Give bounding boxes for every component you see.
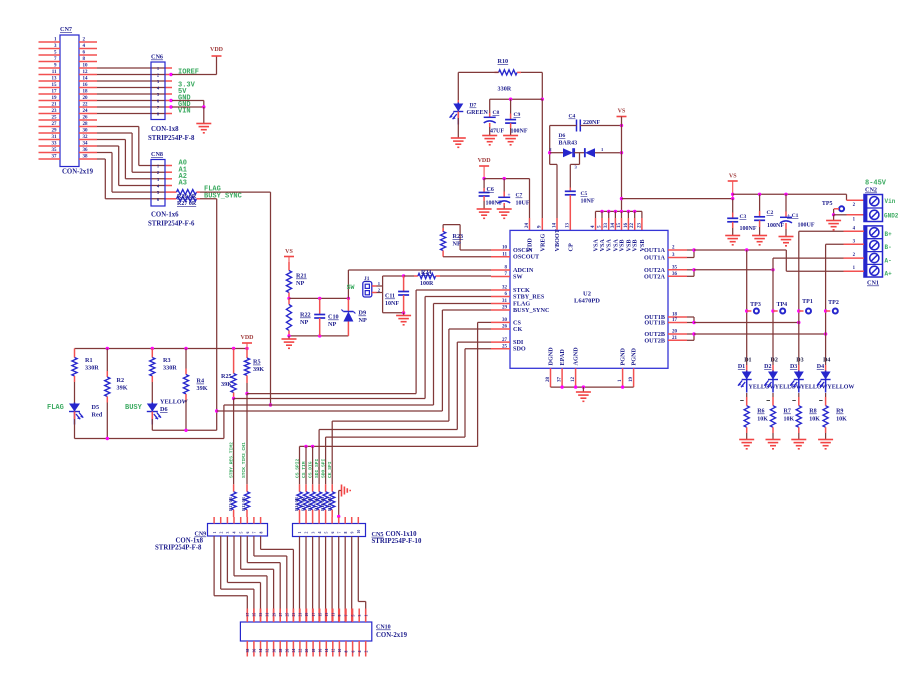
svg-text:R25: R25 [221,373,232,380]
svg-text:12: 12 [83,70,89,75]
svg-text:R5: R5 [253,359,261,366]
svg-text:R13 0R: R13 0R [228,496,233,511]
svg-text:SW: SW [513,274,523,281]
svg-text:CN5: CN5 [372,531,384,538]
svg-text:10UF: 10UF [516,201,530,207]
svg-text:CN10: CN10 [376,625,391,631]
svg-text:NP: NP [453,241,461,248]
svg-text:8: 8 [345,651,349,653]
svg-text:D2: D2 [764,364,771,370]
svg-text:13: 13 [325,613,329,617]
svg-text:D3: D3 [790,364,797,370]
svg-text:C4: C4 [569,114,576,120]
svg-text:10: 10 [83,64,89,69]
svg-text:1: 1 [298,532,302,534]
svg-text:7: 7 [253,532,257,534]
svg-text:330R: 330R [163,365,177,372]
svg-text:CS_DIG: CS_DIG [307,461,313,478]
svg-text:TP3: TP3 [750,302,761,308]
svg-text:U2: U2 [583,291,591,298]
svg-text:L6470PD: L6470PD [574,298,600,305]
svg-text:OUT1B: OUT1B [644,320,665,327]
svg-text:100UF: 100UF [798,223,815,229]
svg-text:D1: D1 [744,358,751,364]
svg-text:23: 23 [637,223,642,229]
svg-text:VS: VS [285,249,293,255]
svg-text:30: 30 [272,649,276,653]
svg-text:3: 3 [311,532,315,534]
svg-text:12: 12 [332,649,336,653]
svg-text:37: 37 [246,613,250,617]
svg-text:25: 25 [52,116,58,121]
svg-text:TP5: TP5 [822,201,833,207]
svg-text:7: 7 [337,532,341,534]
svg-text:R19 0R: R19 0R [327,496,332,511]
svg-text:34: 34 [611,223,616,229]
svg-text:J1: J1 [364,276,370,282]
svg-text:19: 19 [629,377,634,383]
svg-text:STRIP254P-F-6: STRIP254P-F-6 [148,221,195,228]
svg-text:R6: R6 [757,409,764,415]
svg-text:30: 30 [83,129,89,134]
svg-text:C3: C3 [740,214,747,220]
svg-text:34: 34 [83,142,89,147]
svg-text:PGND: PGND [620,347,627,365]
svg-text:CK_SPI: CK_SPI [327,461,333,478]
svg-text:NP: NP [328,321,336,328]
svg-text:3: 3 [358,615,362,617]
svg-text:2: 2 [219,532,223,534]
svg-text:36: 36 [672,272,678,277]
svg-text:R21: R21 [296,273,307,280]
svg-text:R4: R4 [197,378,205,385]
svg-text:1: 1 [213,532,217,534]
svg-text:2: 2 [305,532,309,534]
svg-text:29: 29 [272,613,276,617]
svg-text:C11: C11 [385,294,395,300]
svg-text:16: 16 [624,223,629,229]
svg-text:33: 33 [604,223,609,229]
svg-text:23: 23 [292,613,296,617]
svg-text:TP1: TP1 [802,299,813,305]
svg-text:D6: D6 [559,133,566,139]
svg-text:C7: C7 [516,193,523,199]
svg-text:5: 5 [324,532,328,534]
svg-text:D4: D4 [823,358,830,364]
svg-text:15: 15 [52,83,58,88]
svg-text:9: 9 [350,532,354,534]
svg-text:+ C1: + C1 [787,213,799,219]
svg-text:1: 1 [364,615,368,617]
svg-text:SDO: SDO [513,346,526,353]
svg-text:VDD: VDD [478,158,492,164]
svg-text:19: 19 [52,96,58,101]
svg-text:CS_SPI2: CS_SPI2 [294,458,300,478]
svg-text:21: 21 [52,103,58,108]
svg-text:20: 20 [672,330,678,335]
svg-text:+: + [508,193,511,199]
svg-text:28: 28 [546,377,551,383]
svg-text:YELLOW: YELLOW [160,399,189,406]
svg-text:18: 18 [83,90,89,95]
svg-text:B-: B- [885,244,892,251]
svg-text:CN1: CN1 [867,280,879,287]
svg-text:330R: 330R [85,365,99,372]
svg-text:3: 3 [226,532,230,534]
svg-text:11: 11 [52,70,57,75]
svg-text:SDI_SPI: SDI_SPI [314,458,320,478]
svg-text:28: 28 [279,649,283,653]
svg-text:22: 22 [83,103,89,108]
svg-text:C10: C10 [328,314,339,321]
svg-text:R12 0R: R12 0R [241,496,246,511]
svg-text:TP2: TP2 [828,300,839,306]
svg-text:32: 32 [502,286,508,291]
svg-text:38: 38 [246,649,250,653]
svg-text:D4: D4 [817,364,824,370]
svg-text:CON-2x19: CON-2x19 [62,169,94,176]
svg-text:5: 5 [351,615,355,617]
svg-text:47UF: 47UF [490,129,504,135]
svg-text:31: 31 [502,299,508,304]
svg-text:C5: C5 [581,191,588,197]
svg-text:YELLOW: YELLOW [775,385,802,391]
svg-text:6: 6 [351,651,355,653]
svg-text:10K: 10K [836,417,847,423]
svg-text:C8: C8 [493,110,500,116]
svg-text:NP: NP [359,317,367,324]
svg-text:12: 12 [571,377,576,383]
svg-text:35: 35 [253,613,257,617]
svg-text:CON-2x19: CON-2x19 [376,632,408,639]
svg-text:16: 16 [318,649,322,653]
svg-text:15: 15 [617,223,622,229]
svg-text:STRIP254P-F-10: STRIP254P-F-10 [372,538,422,545]
svg-text:33: 33 [259,613,263,617]
svg-text:21: 21 [672,336,678,341]
svg-text:8: 8 [344,532,348,534]
svg-text:A+: A+ [885,271,893,278]
svg-text:10: 10 [502,246,508,251]
svg-text:35: 35 [52,148,58,153]
svg-text:36: 36 [83,148,89,153]
svg-text:37: 37 [52,155,58,160]
svg-text:13: 13 [566,223,571,229]
svg-text:C6: C6 [487,187,494,193]
svg-text:6: 6 [246,532,250,534]
svg-text:R8: R8 [809,409,816,415]
svg-text:YELLOW: YELLOW [801,385,828,391]
svg-text:10: 10 [338,649,342,653]
svg-text:VDD: VDD [210,47,224,53]
svg-text:BUSY: BUSY [125,404,143,412]
svg-text:D3: D3 [796,358,803,364]
svg-text:7: 7 [345,615,349,617]
svg-text:A3: A3 [179,180,187,188]
svg-text:D1: D1 [738,364,745,370]
svg-text:100NF: 100NF [511,129,528,135]
svg-text:R9: R9 [836,409,843,415]
svg-text:26: 26 [502,325,508,330]
svg-text:18: 18 [672,313,678,318]
svg-text:OUT1A: OUT1A [644,255,666,262]
svg-text:BUSY_SYNC: BUSY_SYNC [513,307,549,314]
svg-text:R1: R1 [85,357,93,364]
svg-text:Vin: Vin [885,198,896,205]
svg-text:39K: 39K [117,385,128,392]
svg-text:R18 0R: R18 0R [320,496,325,511]
svg-text:6: 6 [331,532,335,534]
svg-text:VSB: VSB [639,239,646,251]
svg-text:FLAG: FLAG [47,404,64,412]
svg-text:29: 29 [52,129,58,134]
svg-text:SDO_SPI: SDO_SPI [320,458,326,478]
svg-text:YELLOW: YELLOW [827,385,854,391]
svg-text:38: 38 [83,155,89,160]
svg-text:32: 32 [266,649,270,653]
svg-text:YELLOW: YELLOW [749,385,776,391]
svg-text:30: 30 [502,318,508,323]
svg-text:31: 31 [52,135,58,140]
svg-text:20: 20 [83,96,89,101]
svg-text:VIN: VIN [178,108,191,116]
svg-text:CK: CK [513,326,522,333]
svg-text:100NF: 100NF [740,226,757,232]
svg-text:25: 25 [502,344,508,349]
svg-text:24: 24 [83,109,89,114]
svg-text:25: 25 [286,613,290,617]
svg-text:R16 0R: R16 0R [307,496,312,511]
svg-text:19: 19 [305,613,309,617]
svg-text:NP: NP [300,319,308,326]
svg-text:CN7: CN7 [60,26,72,33]
svg-text:VS: VS [729,174,737,180]
svg-text:39K: 39K [253,366,264,373]
svg-text:22: 22 [299,649,303,653]
svg-text:15: 15 [318,613,322,617]
svg-text:18: 18 [312,649,316,653]
svg-text:4: 4 [318,532,322,534]
svg-text:29: 29 [502,306,508,311]
svg-text:20: 20 [305,649,309,653]
svg-text:27: 27 [52,122,58,127]
svg-text:BAR43: BAR43 [559,141,578,147]
svg-text:CON-1x10: CON-1x10 [386,531,418,538]
svg-text:VS: VS [618,109,626,115]
svg-text:24: 24 [292,649,296,653]
svg-text:17: 17 [312,613,316,617]
svg-text:23: 23 [52,109,58,114]
svg-text:VBOOT: VBOOT [554,228,561,251]
svg-text:39K: 39K [197,385,208,392]
svg-text:OUT1A: OUT1A [644,247,666,254]
svg-text:CON-1x8: CON-1x8 [151,126,179,133]
svg-text:28: 28 [83,122,89,127]
svg-text:100R: 100R [420,281,434,287]
svg-text:11: 11 [332,613,336,617]
svg-text:VSB: VSB [632,239,639,251]
svg-text:26: 26 [286,649,290,653]
svg-text:8: 8 [259,532,263,534]
svg-text:Red: Red [92,412,103,419]
svg-text:D5: D5 [92,404,100,411]
svg-text:STCK_TIM3_CH1: STCK_TIM3_CH1 [241,442,247,478]
svg-text:24: 24 [525,223,530,229]
svg-text:SW: SW [347,284,355,291]
svg-text:17: 17 [672,318,678,323]
svg-text:A-: A- [885,258,892,265]
svg-text:D2: D2 [771,358,778,364]
svg-text:R10: R10 [498,58,509,65]
svg-text:CN8: CN8 [151,151,163,158]
svg-text:4: 4 [358,651,362,653]
svg-text:14: 14 [83,77,89,82]
svg-text:35: 35 [672,266,678,271]
svg-text:11: 11 [502,252,507,257]
svg-text:C2: C2 [767,210,774,216]
svg-text:27: 27 [279,613,283,617]
svg-text:OUT2A: OUT2A [644,273,666,280]
svg-text:2: 2 [364,651,368,653]
svg-text:STBY_RES: STBY_RES [513,294,545,301]
svg-text:R7: R7 [784,409,791,415]
svg-text:EPAD: EPAD [559,349,566,366]
svg-text:PGND: PGND [631,347,638,365]
svg-text:OSCOUT: OSCOUT [513,254,540,261]
svg-text:R15 0R: R15 0R [301,496,306,511]
svg-text:CP: CP [567,243,574,251]
svg-text:10NF: 10NF [581,199,595,205]
svg-text:VDD: VDD [241,335,255,341]
svg-text:C9: C9 [514,112,521,118]
svg-text:10K: 10K [757,417,768,423]
svg-text:26: 26 [83,116,89,121]
svg-text:10K: 10K [809,417,820,423]
svg-text:17: 17 [52,90,58,95]
svg-text:VDD: VDD [527,238,534,252]
svg-text:31: 31 [266,613,270,617]
svg-text:GND2: GND2 [884,212,899,219]
svg-text:OUT2B: OUT2B [644,337,665,344]
svg-text:R2: R2 [117,377,125,384]
svg-text:100NF: 100NF [767,223,784,229]
svg-text:37: 37 [558,377,563,383]
svg-text:STRIP254P-F-8: STRIP254P-F-8 [155,545,202,552]
svg-text:27: 27 [502,338,508,343]
svg-text:CON-1x6: CON-1x6 [151,212,179,219]
svg-text:CN6: CN6 [151,54,163,61]
svg-text:TP4: TP4 [776,302,787,308]
svg-text:IOREF: IOREF [178,69,199,77]
svg-text:STRIP254P-F-8: STRIP254P-F-8 [148,135,195,142]
svg-text:R3: R3 [163,357,171,364]
svg-text:10: 10 [357,530,361,534]
svg-text:34: 34 [259,649,263,653]
svg-text:16: 16 [83,83,89,88]
svg-text:NP: NP [296,280,304,287]
svg-text:D6: D6 [160,406,168,413]
svg-text:5: 5 [239,532,243,534]
svg-text:AGND: AGND [573,347,580,366]
svg-text:R17 0R: R17 0R [314,496,319,511]
svg-text:R26 0R: R26 0R [177,194,197,200]
svg-text:R22: R22 [300,312,311,319]
svg-text:32: 32 [83,135,89,140]
svg-text:R27 0R: R27 0R [177,201,197,207]
svg-text:D7: D7 [470,103,477,109]
svg-text:D9: D9 [359,310,367,317]
svg-text:10NF: 10NF [385,301,399,307]
svg-text:39K: 39K [221,381,232,388]
svg-text:GREEN: GREEN [467,110,489,116]
svg-text:CS_TIM: CS_TIM [301,461,307,478]
svg-text:R14 0R: R14 0R [294,496,299,511]
svg-text:DGND: DGND [548,347,555,366]
svg-text:R23: R23 [453,233,464,240]
svg-text:9: 9 [338,615,342,617]
svg-text:10K: 10K [784,417,795,423]
svg-text:R24: R24 [421,270,431,276]
svg-text:33: 33 [52,142,58,147]
svg-text:330R: 330R [498,86,512,93]
svg-text:21: 21 [299,613,303,617]
svg-text:STBY_RES_TIM2: STBY_RES_TIM2 [228,442,234,478]
svg-text:VREG: VREG [539,233,546,251]
svg-text:22: 22 [630,223,635,229]
svg-text:13: 13 [52,77,58,82]
svg-text:B+: B+ [885,231,893,238]
svg-text:CON-1x8: CON-1x8 [176,538,204,545]
svg-text:14: 14 [325,649,329,653]
svg-text:CN2: CN2 [865,187,877,194]
svg-text:4: 4 [233,532,237,534]
svg-text:36: 36 [253,649,257,653]
svg-text:14: 14 [552,223,557,229]
